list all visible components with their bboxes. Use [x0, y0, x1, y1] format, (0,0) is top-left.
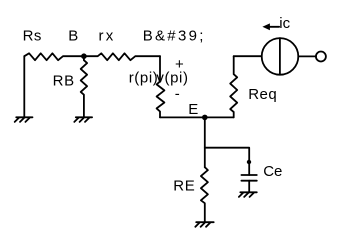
capacitor Ce plates	[241, 175, 256, 181]
node E junction dot	[202, 115, 208, 121]
resistor rx	[84, 53, 160, 60]
svg-text:rx: rx	[99, 28, 116, 45]
svg-text:ic: ic	[279, 15, 290, 32]
node B junction dot	[81, 53, 87, 59]
ground (RB)	[74, 117, 92, 122]
resistor Req	[230, 56, 237, 117]
svg-text:r(pi): r(pi)	[129, 69, 159, 86]
wire E branch to Ce	[205, 148, 249, 175]
terminal circle	[316, 52, 326, 62]
wire r(pi) to E to Req	[160, 116, 234, 118]
resistor Rs	[24, 53, 84, 60]
svg-text:Ce: Ce	[263, 163, 282, 180]
current source bar	[279, 38, 281, 75]
arrow ic head	[262, 23, 270, 30]
svg-text:E: E	[188, 101, 198, 118]
resistor RE	[201, 167, 208, 221]
wire left rail	[23, 56, 25, 117]
wire Ce plate to ground	[248, 181, 250, 193]
current source circle	[262, 38, 299, 75]
svg-text:RE: RE	[173, 178, 195, 195]
wire Req top to current source	[234, 55, 262, 57]
arrow ic shaft	[268, 26, 279, 28]
resistor RB	[81, 56, 87, 117]
ground (Ce)	[239, 192, 257, 197]
wire B' down	[159, 56, 161, 81]
ground (left rail)	[15, 117, 33, 122]
svg-text:RB: RB	[53, 73, 75, 90]
wire E down	[204, 117, 206, 167]
node Ce junction dot	[247, 160, 251, 164]
svg-text:B: B	[68, 28, 78, 45]
svg-text:-: -	[175, 86, 180, 103]
svg-text:Req: Req	[248, 86, 277, 103]
svg-text:+: +	[175, 56, 184, 73]
resistor r(pi)	[157, 81, 165, 117]
svg-text:B&#39;: B&#39;	[143, 28, 206, 45]
svg-text:Rs: Rs	[23, 28, 42, 45]
ground (RE)	[195, 222, 213, 227]
wire source to terminal	[298, 55, 316, 57]
